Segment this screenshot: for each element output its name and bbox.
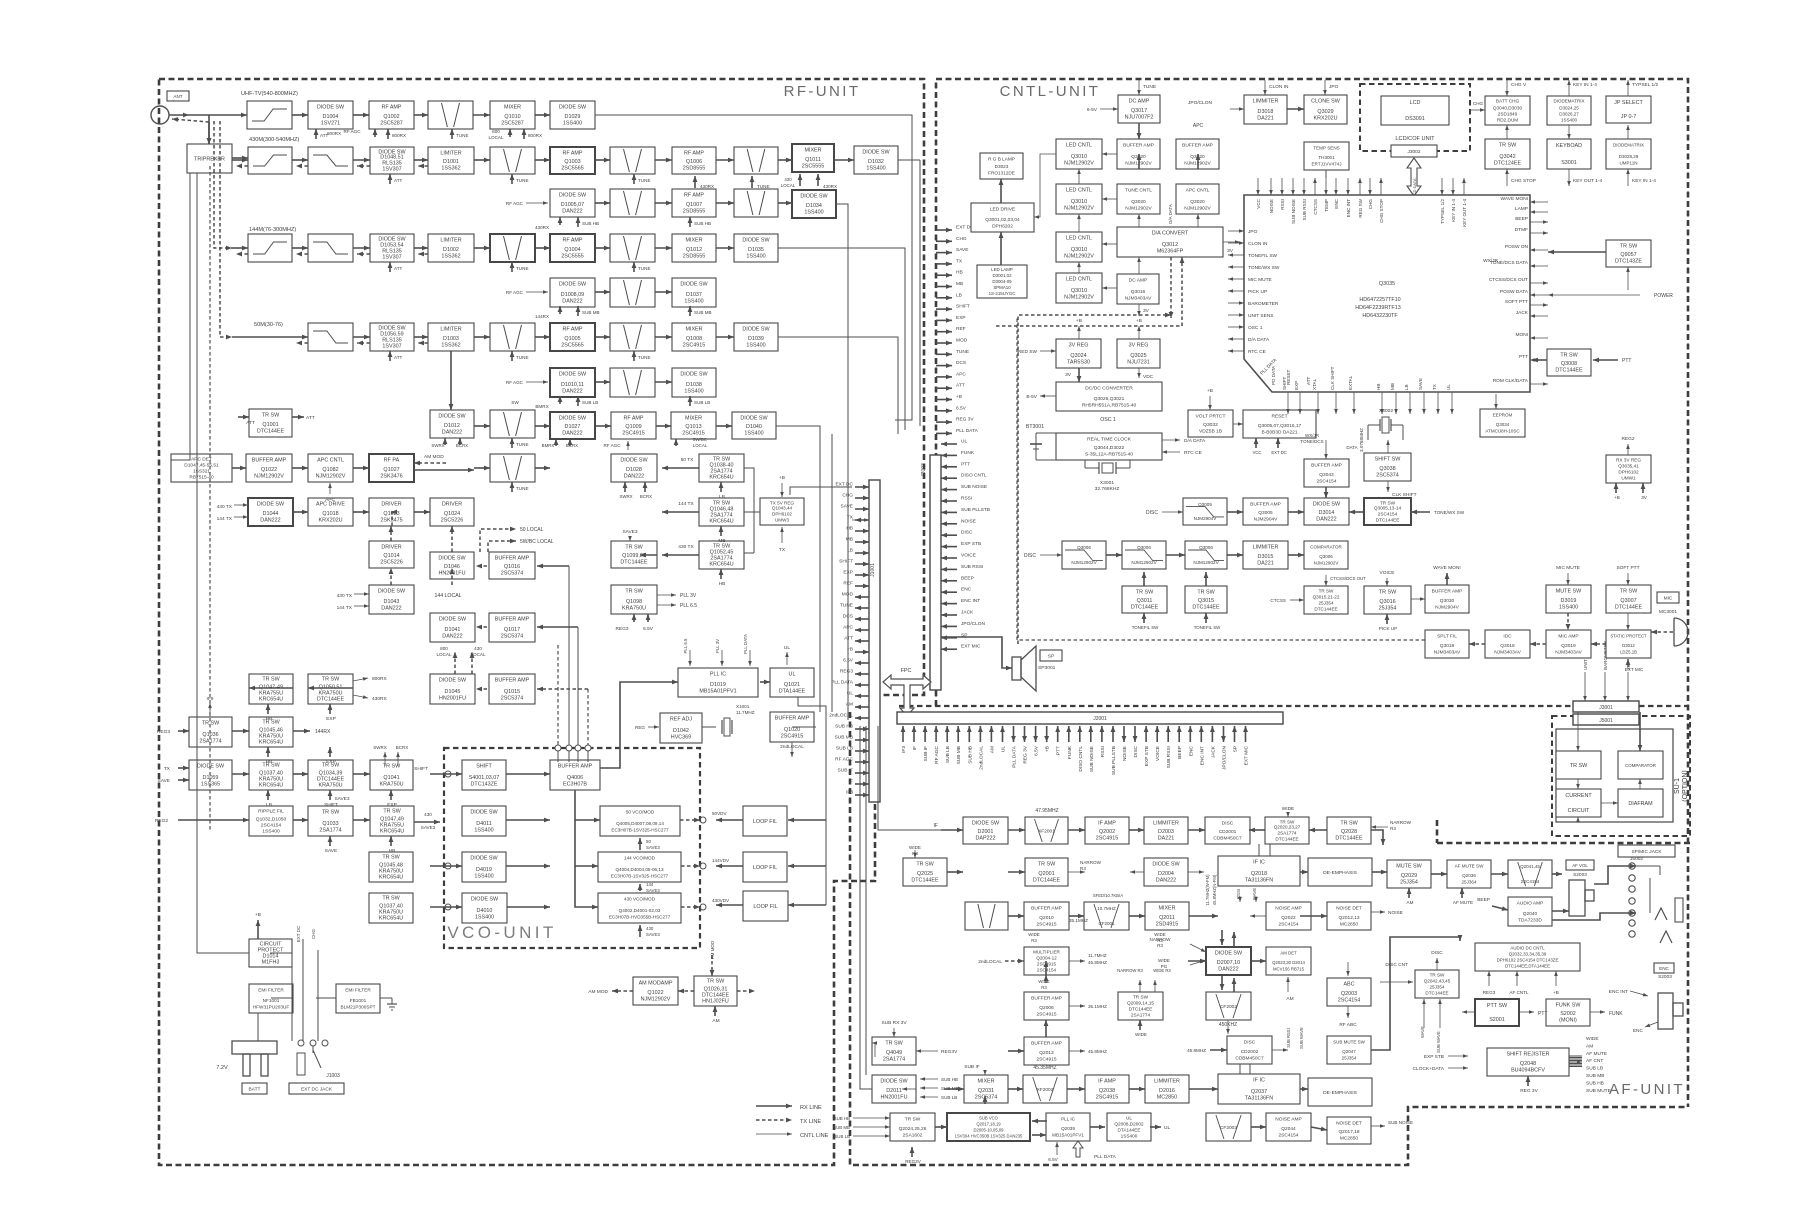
svg-text:DC/DC CONVERTER: DC/DC CONVERTER (1085, 386, 1133, 392)
wire (267, 747, 269, 757)
wire (474, 467, 490, 469)
svg-text:DISC: DISC (1024, 553, 1036, 559)
svg-text:DTC144EE: DTC144EE (317, 697, 345, 703)
wire (1190, 960, 1206, 965)
svg-text:VOLT PRTCT: VOLT PRTCT (1196, 414, 1226, 420)
wire pin EXP STB (941, 546, 957, 548)
svg-text:SUB HB: SUB HB (694, 221, 711, 226)
wire (1197, 214, 1199, 227)
block NOISE DET Q2012,13 (1327, 902, 1371, 930)
svg-text:J5001: J5001 (1599, 718, 1613, 724)
svg-text:MB15A01PFV1: MB15A01PFV1 (699, 689, 736, 695)
svg-text:DTMF: DTMF (1515, 227, 1528, 233)
svg-text:DC AMP: DC AMP (1129, 99, 1150, 105)
svg-text:2ndLOCAL: 2ndLOCAL (978, 746, 984, 770)
wire (296, 253, 308, 255)
svg-text:KRC654U: KRC654U (259, 740, 283, 746)
svg-text:1SS400: 1SS400 (746, 343, 765, 349)
svg-text:50: 50 (646, 839, 651, 844)
svg-text:KRC654U: KRC654U (380, 829, 404, 835)
svg-text:PLL DATA: PLL DATA (743, 634, 748, 654)
wire 144local up (451, 568, 453, 585)
wire (1287, 108, 1304, 110)
wire mcu pin MIC MUTE (1228, 278, 1244, 280)
svg-text:45.8MHZ(N-FM): 45.8MHZ(N-FM) (1212, 874, 1217, 905)
svg-text:BUFFER AMP: BUFFER AMP (1031, 1041, 1062, 1047)
svg-text:11.7MHZ(W-FM): 11.7MHZ(W-FM) (1205, 874, 1210, 906)
block IF IC Q2037 (1218, 1074, 1300, 1104)
svg-text:TONE/WX SW: TONE/WX SW (1434, 510, 1465, 515)
block LOOP FIL 3 (743, 891, 788, 921)
svg-text:APC CNTL: APC CNTL (317, 458, 344, 464)
svg-text:J3002: J3002 (1407, 149, 1420, 155)
svg-text:FUNK: FUNK (961, 450, 975, 456)
wire (1639, 779, 1641, 789)
block filter XF2001 (1025, 817, 1068, 844)
svg-text:SUB RSSI: SUB RSSI (1302, 199, 1307, 220)
block EEPROM Q3034 (1480, 409, 1525, 437)
svg-text:AUDIO AMP: AUDIO AMP (1517, 901, 1544, 907)
svg-text:NOISE DET: NOISE DET (1336, 906, 1362, 912)
svg-text:Q2032,33,34,35,39: Q2032,33,34,35,39 (1509, 952, 1547, 957)
block ENC label (1654, 963, 1674, 973)
svg-text:45.8MHZ: 45.8MHZ (1088, 960, 1107, 965)
wire (1371, 911, 1385, 913)
svg-text:Q1022: Q1022 (647, 990, 663, 996)
svg-text:REG2: REG2 (1621, 436, 1634, 442)
block SUB VCO Q2017,18,19 (947, 1113, 1030, 1141)
svg-text:D1039: D1039 (748, 336, 764, 342)
svg-text:SU-1: SU-1 (1674, 778, 1681, 794)
svg-text:MC2850: MC2850 (1157, 1095, 1177, 1101)
svg-text:OSC 1: OSC 1 (1100, 417, 1116, 423)
wire (418, 342, 428, 344)
svg-text:VDZ5B 1B: VDZ5B 1B (1199, 429, 1222, 435)
block UL Q1021 (770, 668, 814, 697)
svg-text:BEEP: BEEP (961, 575, 974, 581)
svg-text:AF MUTE: AF MUTE (1453, 900, 1473, 905)
wire pin SHIFT (855, 563, 869, 565)
wire (1227, 554, 1243, 556)
wire (1288, 511, 1304, 513)
svg-text:BATT CHG: BATT CHG (1496, 99, 1520, 104)
wire mcu pin MB (1395, 392, 1397, 414)
svg-text:430: 430 (424, 812, 432, 817)
wire (444, 438, 446, 445)
svg-text:D3019: D3019 (1561, 598, 1577, 604)
wire (535, 425, 550, 427)
wire mcu pin CLON IN (1228, 242, 1244, 244)
wire (535, 467, 550, 469)
svg-text:VCO-UNIT: VCO-UNIT (447, 923, 556, 942)
svg-text:HB: HB (266, 716, 273, 722)
wire (451, 129, 453, 139)
FPC arrow (883, 675, 931, 716)
wire mcu pin LAMP (1530, 211, 1548, 213)
svg-text:D1004: D1004 (323, 114, 339, 120)
svg-text:Q3043: Q3043 (1319, 472, 1334, 478)
wire trsw left HB (662, 554, 699, 556)
svg-text:LB: LB (956, 292, 962, 298)
svg-text:IF: IF (934, 823, 938, 829)
block BUFFER AMP Q1015 (489, 674, 535, 704)
block R G B LAMP D3023 (980, 153, 1023, 179)
svg-text:NJM3403AV: NJM3403AV (1555, 650, 1582, 656)
wire (1130, 871, 1144, 873)
svg-text:DE-EMPHASIS: DE-EMPHASIS (1323, 870, 1357, 876)
wire (1008, 829, 1025, 831)
wire pin PTT (1057, 726, 1059, 742)
wire pin TX (855, 519, 869, 521)
wire (1590, 1011, 1605, 1013)
wire (595, 336, 610, 338)
svg-text:ENC: ENC (1188, 745, 1194, 756)
wire (267, 790, 269, 800)
wire (1408, 888, 1410, 898)
svg-text:SUB MUTE SW: SUB MUTE SW (1333, 1040, 1366, 1045)
wire pin TUNE (936, 353, 952, 355)
svg-text:2SC4154: 2SC4154 (1378, 512, 1398, 517)
svg-text:TUNE: TUNE (638, 355, 651, 360)
svg-text:REG2: REG2 (155, 818, 168, 824)
svg-text:FB1001: FB1001 (350, 998, 367, 1003)
wire (178, 819, 249, 821)
svg-text:FPC: FPC (901, 668, 912, 674)
svg-text:2SC5555: 2SC5555 (802, 164, 824, 170)
wire pin CHG (855, 497, 869, 499)
block DIODE SW D1005,07 (550, 189, 595, 217)
svg-text:DIODEMATRIX: DIODEMATRIX (1613, 143, 1644, 148)
wire buffer to vco (575, 790, 600, 820)
legend CNTL arrow (756, 1133, 792, 1135)
wire (577, 627, 579, 748)
svg-text:EXT DC: EXT DC (296, 925, 301, 942)
svg-text:10.7MHZ: 10.7MHZ (1097, 906, 1116, 911)
svg-text:SUB LB: SUB LB (836, 746, 853, 752)
svg-text:25J354: 25J354 (1400, 880, 1418, 886)
block BUFFER AMP Q2010 (1024, 902, 1069, 930)
wire pll to subvco (1032, 1120, 1047, 1122)
wire buffer to pll (600, 682, 678, 768)
svg-text:1SS400: 1SS400 (262, 829, 280, 835)
wire pin FUNK (941, 454, 957, 456)
block box (610, 278, 655, 307)
wire pin MB (936, 286, 952, 288)
wire 800 local (454, 652, 456, 674)
svg-text:DAN222: DAN222 (442, 634, 462, 640)
block CIRCUIT PROTECT (249, 939, 292, 967)
svg-text:BEEP: BEEP (1477, 897, 1490, 903)
block DIODE SW D1029 (550, 101, 595, 129)
svg-text:430RX: 430RX (823, 184, 837, 189)
block BUFFER AMP Q3030 (1425, 585, 1469, 613)
svg-text:50VDV: 50VDV (712, 811, 727, 816)
svg-text:AM: AM (1286, 996, 1293, 1002)
svg-text:APC CNTL: APC CNTL (1186, 188, 1210, 194)
wire q1098 left (640, 554, 657, 556)
svg-text:DPH6102: DPH6102 (1618, 470, 1639, 475)
svg-text:Q3015: Q3015 (1198, 598, 1214, 604)
svg-text:800: 800 (492, 129, 500, 134)
svg-text:RF AMP: RF AMP (684, 151, 704, 157)
svg-text:D2005-10,05,09: D2005-10,05,09 (973, 1128, 1004, 1133)
svg-text:ERTJ1VV474J: ERTJ1VV474J (1311, 162, 1341, 167)
svg-text:SAVE: SAVE (1418, 378, 1423, 390)
svg-text:EXP: EXP (326, 759, 336, 765)
wire (853, 1135, 890, 1137)
svg-text:ATT: ATT (394, 178, 403, 183)
svg-text:TONE/WX SW: TONE/WX SW (1248, 265, 1280, 271)
svg-text:EXTAL: EXTAL (1348, 375, 1353, 390)
wire (329, 836, 331, 846)
PLL DATA open arrow (1073, 1141, 1083, 1157)
svg-text:DTC144EE: DTC144EE (1275, 837, 1298, 842)
wire (1386, 614, 1388, 624)
svg-text:MIXER: MIXER (685, 238, 702, 244)
svg-text:DTC143ZE: DTC143ZE (1615, 259, 1642, 265)
block RF AMP Q1006 (672, 147, 716, 174)
svg-text:SUB IF: SUB IF (964, 1064, 980, 1070)
wire (629, 536, 631, 541)
wire (587, 689, 589, 748)
svg-text:Q3010: Q3010 (1071, 199, 1087, 205)
svg-text:Q9057: Q9057 (1620, 252, 1636, 258)
wire (292, 114, 308, 116)
svg-text:JPO/CLON: JPO/CLON (1222, 745, 1228, 770)
svg-text:BUFFER AMP: BUFFER AMP (1123, 143, 1154, 149)
svg-text:800RX: 800RX (327, 131, 341, 136)
svg-text:AM: AM (989, 746, 995, 753)
wire (1651, 631, 1673, 633)
svg-text:1SV271: 1SV271 (321, 121, 340, 127)
svg-text:SAVE: SAVE (956, 247, 968, 253)
svg-text:TYPSEL 1/2: TYPSEL 1/2 (1440, 199, 1445, 225)
svg-text:SHIFT: SHIFT (839, 559, 853, 565)
svg-text:35.1MHZ: 35.1MHZ (1088, 1004, 1107, 1009)
svg-text:SUB IF: SUB IF (838, 768, 854, 774)
svg-text:Q3026,Q3021: Q3026,Q3021 (1094, 396, 1125, 402)
wire pin SUB NOISE (941, 489, 957, 491)
wire (291, 953, 293, 1041)
wire (418, 253, 428, 255)
svg-text:APC DET: APC DET (191, 457, 212, 463)
block MIC label (1657, 592, 1679, 603)
svg-text:1SS400: 1SS400 (744, 431, 763, 437)
svg-text:D3024,25: D3024,25 (1559, 106, 1579, 111)
svg-text:LDZ5,1B: LDZ5,1B (1620, 650, 1637, 655)
svg-text:PLL DATA: PLL DATA (1012, 745, 1018, 768)
wire (267, 704, 269, 714)
svg-text:DAN222: DAN222 (562, 389, 582, 395)
wire pin JPO/CLON (1223, 726, 1225, 742)
svg-text:TH3001: TH3001 (1318, 155, 1335, 160)
svg-text:Q1043,44: Q1043,44 (772, 506, 793, 511)
svg-text:Q3006: Q3006 (1077, 545, 1091, 550)
wire disc cnt (1380, 981, 1413, 983)
svg-text:EXP: EXP (387, 802, 397, 808)
wire (329, 747, 331, 757)
wire pin LB (855, 552, 869, 554)
connector J3001 (1573, 701, 1639, 712)
svg-text:IF: IF (912, 746, 918, 750)
svg-text:BAROMETER: BAROMETER (1248, 301, 1279, 307)
svg-text:RSSI: RSSI (1100, 746, 1106, 757)
wire (389, 351, 391, 361)
svg-text:+B: +B (1076, 318, 1082, 324)
svg-text:2SC4915: 2SC4915 (1036, 1012, 1056, 1018)
connector J1001 (869, 480, 880, 802)
block DIODE SW D1048,51 (370, 147, 414, 174)
block 430 VCO/MOD Q4002,D4001-02,03 (598, 893, 681, 923)
wire (389, 262, 391, 272)
wire (353, 678, 368, 681)
svg-text:ATT: ATT (306, 415, 315, 421)
svg-text:REG: REG (635, 725, 645, 730)
wire (633, 614, 635, 622)
svg-text:1SV304 HVC350B 1SV325 DAN235: 1SV304 HVC350B 1SV325 DAN235 (955, 1134, 1023, 1139)
wire (1287, 812, 1289, 817)
wire (1045, 1020, 1047, 1037)
svg-text:PTT: PTT (961, 461, 970, 467)
svg-text:430 TX: 430 TX (217, 504, 233, 510)
svg-text:D/A CONVERT: D/A CONVERT (1152, 231, 1189, 237)
svg-text:430M(300-540MHZ): 430M(300-540MHZ) (249, 137, 300, 143)
svg-text:TR SW: TR SW (625, 545, 643, 551)
svg-text:SUB PLLSTB: SUB PLLSTB (1111, 746, 1117, 775)
svg-text:LED CNTL: LED CNTL (1066, 236, 1092, 242)
wire ul link (760, 681, 770, 683)
svg-text:PLL DATA: PLL DATA (956, 428, 979, 434)
svg-text:EEPROM: EEPROM (1493, 413, 1513, 418)
svg-text:AF VOL: AF VOL (1572, 863, 1588, 868)
svg-text:NJM12902V: NJM12902V (316, 474, 346, 480)
wire (353, 511, 369, 513)
wire (1249, 829, 1265, 831)
block LOOP FIL 1 (743, 806, 787, 836)
svg-text:JPO/CLON: JPO/CLON (1188, 100, 1213, 106)
svg-text:SHIFT: SHIFT (476, 764, 492, 770)
wire (1371, 1125, 1385, 1127)
wire (293, 773, 308, 775)
block APC DRIVE Q1018 (308, 498, 353, 526)
wire mcu pin BAROMETER (1228, 302, 1244, 304)
svg-text:MUTE SW: MUTE SW (1556, 589, 1582, 595)
svg-text:Q3007: Q3007 (1620, 598, 1636, 604)
block APC DET D1047,45-55,51 (171, 454, 232, 482)
svg-text:R3: R3 (1080, 866, 1086, 871)
wire (1567, 573, 1569, 585)
svg-text:144 VCO/MOD: 144 VCO/MOD (624, 856, 656, 861)
svg-text:EXP STB: EXP STB (961, 541, 981, 547)
svg-text:S2003: S2003 (1658, 974, 1672, 980)
AF-UNIT top-right border (1437, 842, 1690, 845)
block BUFFER AMP Q2013 (1024, 1037, 1069, 1065)
svg-text:STATIC PROTECT: STATIC PROTECT (1610, 634, 1647, 639)
block APC CNTL Q3020 (1176, 184, 1219, 214)
wire (1068, 871, 1085, 873)
wire sub rx (893, 1028, 895, 1037)
svg-text:DA221: DA221 (1257, 116, 1273, 122)
svg-text:Q3018: Q3018 (1440, 643, 1455, 649)
svg-text:PLL DATA: PLL DATA (1094, 1154, 1117, 1160)
svg-text:WIDE: WIDE (1158, 958, 1170, 963)
svg-text:SAVE: SAVE (158, 778, 170, 784)
svg-text:EXT MIC: EXT MIC (1244, 745, 1250, 765)
svg-text:1SS321: 1SS321 (193, 469, 210, 475)
block RX 3V REG Q3035,41 (1606, 455, 1651, 483)
svg-text:2SD8555: 2SD8555 (683, 209, 705, 215)
svg-text:D3014: D3014 (1319, 510, 1335, 516)
svg-text:CHG STOP: CHG STOP (1379, 199, 1384, 223)
svg-text:PTT: PTT (1622, 358, 1631, 364)
wire (1639, 712, 1641, 751)
wire (1519, 1011, 1534, 1013)
wire mcu pin LB (1409, 392, 1411, 414)
LCD/COF UNIT border (1360, 84, 1470, 151)
block BUFFER AMP Q1020 (770, 712, 814, 742)
block BUFFER AMP Q2006 (1024, 992, 1069, 1020)
svg-text:UHF-TV(540-800MHZ): UHF-TV(540-800MHZ) (241, 91, 298, 97)
svg-text:LIMMITER: LIMMITER (1153, 821, 1179, 827)
wire mcu pin CLK SHIFT (1335, 392, 1337, 414)
svg-text:HD64F2239RTF13: HD64F2239RTF13 (1355, 305, 1400, 311)
wire (1000, 179, 1002, 203)
wire (1255, 896, 1257, 902)
wire if9 (209, 703, 211, 717)
svg-text:D1027: D1027 (565, 424, 581, 430)
svg-text:D/A DATA: D/A DATA (1184, 438, 1206, 444)
wire pin +B (855, 651, 869, 653)
wire pin DISO CNTL (1079, 726, 1081, 742)
svg-text:DTC144EE: DTC144EE (1555, 368, 1583, 374)
wire 430 sub IF down (836, 204, 848, 720)
svg-text:2SC4154: 2SC4154 (1278, 922, 1298, 928)
svg-text:JPO: JPO (1248, 229, 1258, 235)
svg-text:144M(76-300MHZ): 144M(76-300MHZ) (249, 227, 296, 233)
svg-text:Q2048: Q2048 (1520, 1061, 1536, 1067)
svg-text:Q3010: Q3010 (1071, 154, 1087, 160)
wire (568, 566, 570, 748)
wire q1016 in (537, 565, 569, 567)
wire (914, 850, 916, 858)
svg-text:R3: R3 (1390, 826, 1396, 831)
wire (1349, 511, 1364, 513)
block TR SW Q1033 (308, 806, 353, 836)
block box (610, 189, 655, 217)
svg-text:Q1003: Q1003 (564, 159, 580, 165)
block LIMMITER D2003 (1144, 817, 1188, 844)
wire mcu pin JACK (1530, 315, 1548, 317)
wire (535, 247, 550, 249)
wire pin REF (855, 585, 869, 587)
svg-text:AUDIO DC CNTL: AUDIO DC CNTL (1510, 946, 1545, 951)
svg-text:TR SW: TR SW (1430, 973, 1445, 978)
block DIODE SW D1053,54 (370, 234, 414, 262)
wire (1008, 871, 1025, 873)
svg-text:SAVE: SAVE (841, 504, 853, 510)
svg-text:Q3016: Q3016 (1131, 289, 1146, 295)
wire (384, 752, 386, 766)
block box (965, 902, 1008, 930)
svg-text:SUB MB: SUB MB (941, 1086, 959, 1091)
svg-text:DISO CNTL: DISO CNTL (961, 473, 987, 479)
svg-text:45.35MHZ: 45.35MHZ (1033, 1065, 1056, 1071)
svg-text:JPO: JPO (1329, 84, 1339, 90)
wire mcu pin PTT (1530, 359, 1548, 361)
svg-text:Q3006: Q3006 (1199, 545, 1213, 550)
wire (236, 165, 248, 167)
svg-text:AF CNTL: AF CNTL (1509, 990, 1529, 995)
